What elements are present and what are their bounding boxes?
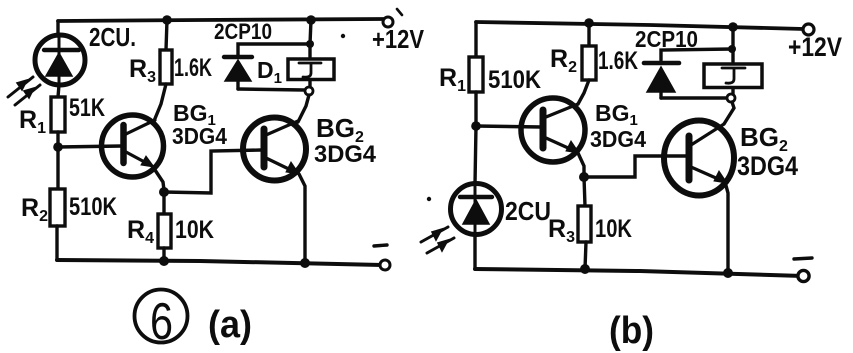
label BG2 (a) bbox=[316, 113, 364, 146]
node BG2 emitter bottom (b) bbox=[723, 268, 733, 278]
label R1 (b) bbox=[439, 64, 466, 95]
wire emitter node to BG2 base (a) bbox=[164, 150, 261, 193]
value 510K (a) bbox=[69, 193, 117, 221]
node relay top (b) bbox=[728, 45, 736, 53]
svg-text:3DG4: 3DG4 bbox=[737, 151, 798, 181]
svg-text:3DG4: 3DG4 bbox=[314, 141, 377, 168]
svg-text:3DG4: 3DG4 bbox=[172, 123, 227, 149]
relay J coil (b) bbox=[704, 49, 762, 94]
node relay top (a) bbox=[306, 40, 314, 48]
label J (b) bbox=[722, 68, 745, 83]
transistor BG1 (b) bbox=[521, 98, 585, 162]
label (a) bbox=[208, 304, 252, 346]
node R4 bottom (a) bbox=[159, 256, 169, 266]
svg-text:R1: R1 bbox=[439, 64, 466, 95]
svg-text:2CU: 2CU bbox=[505, 196, 551, 226]
svg-text:R1: R1 bbox=[19, 106, 46, 137]
label J (a) bbox=[299, 63, 321, 77]
label R3 (a) bbox=[129, 55, 156, 86]
stray dot near relay (a) bbox=[341, 34, 345, 38]
wire relay to BG2 collector (a) bbox=[298, 95, 309, 122]
label R2 (b) bbox=[550, 45, 577, 76]
diode D1 (a) bbox=[224, 57, 252, 89]
wire top rail (a) bbox=[58, 19, 383, 21]
label +12V (a) bbox=[372, 24, 425, 54]
wire R4 to bottom rail (a) bbox=[162, 248, 165, 261]
svg-text:R4: R4 bbox=[127, 216, 154, 247]
relay J coil (a) bbox=[288, 44, 334, 87]
resistor R1 (b) bbox=[469, 57, 483, 92]
wire relay to BG2 collector (b) bbox=[724, 102, 734, 124]
diode 2CP10 (b) bbox=[644, 63, 679, 98]
svg-text:3DG4: 3DG4 bbox=[590, 126, 646, 152]
svg-text:R3: R3 bbox=[548, 215, 575, 246]
resistor R2 (b) bbox=[582, 46, 596, 80]
label 2CU (b) bbox=[505, 196, 551, 226]
wire node to photodiode (b) bbox=[475, 126, 476, 184]
terminal +12V (a) bbox=[383, 17, 393, 27]
node BG2 emitter bottom (a) bbox=[300, 258, 310, 268]
label R3 (b) bbox=[548, 215, 575, 246]
photodiode 2CU (a) bbox=[35, 35, 85, 85]
wire BG1 emitter to node (b) bbox=[578, 153, 584, 176]
wire base BG1 (b) bbox=[476, 126, 541, 127]
node junction above relay (a) bbox=[306, 15, 316, 25]
label 3DG4 BG1 (b) bbox=[590, 126, 646, 152]
label 3DG4 BG1 (a) bbox=[172, 123, 227, 149]
svg-text:10K: 10K bbox=[595, 215, 632, 243]
svg-text:6: 6 bbox=[150, 293, 173, 351]
terminal +12V (b) bbox=[803, 24, 814, 35]
resistor R1 (a) bbox=[51, 97, 65, 132]
label +12V (b) bbox=[788, 32, 842, 62]
resistor R4 (a) bbox=[158, 214, 171, 248]
label R4 (a) bbox=[127, 216, 154, 247]
svg-text:R3: R3 bbox=[129, 55, 156, 86]
wire emitter node to BG2 base (b) bbox=[584, 156, 687, 177]
wire photodiode to R1 (a) bbox=[58, 85, 59, 97]
transistor BG2 (a) bbox=[243, 118, 306, 181]
wire main vertical to relay node (a) bbox=[310, 20, 311, 44]
label 2CP10 (a) bbox=[214, 19, 272, 44]
svg-text:510K: 510K bbox=[488, 66, 541, 94]
svg-text:BG1: BG1 bbox=[595, 100, 638, 129]
label R2 (a) bbox=[21, 194, 48, 225]
node base of BG1 (a) bbox=[53, 142, 63, 152]
label (b) bbox=[609, 310, 654, 352]
light arrows into photodiode (a) bbox=[8, 77, 40, 105]
wire bottom rail (b) bbox=[475, 269, 803, 276]
svg-text:+12V: +12V bbox=[788, 32, 842, 62]
label D1 (a) bbox=[257, 57, 282, 87]
svg-text:1.6K: 1.6K bbox=[598, 47, 638, 75]
value 51K (a) bbox=[69, 94, 105, 122]
value 1.6K (b) bbox=[598, 47, 638, 75]
wire relay node to D1 top (a) bbox=[238, 44, 310, 56]
resistor R2 (a) bbox=[50, 189, 65, 226]
label 3DG4 BG2 (a) bbox=[314, 141, 377, 168]
label figure 6 bbox=[135, 290, 188, 352]
svg-text:2CU.: 2CU. bbox=[89, 22, 136, 52]
label 2CP10 (b) bbox=[635, 26, 698, 52]
svg-text:10K: 10K bbox=[175, 216, 214, 244]
wire bottom rail (a) bbox=[57, 260, 384, 265]
wire R2 to bottom rail (a) bbox=[55, 226, 58, 260]
terminal minus (b) bbox=[794, 258, 812, 282]
svg-text:D1: D1 bbox=[257, 57, 282, 87]
svg-text:51K: 51K bbox=[69, 94, 105, 122]
label BG2 (b) bbox=[740, 122, 788, 155]
svg-text:1.6K: 1.6K bbox=[174, 54, 212, 82]
label 2CU. (a) bbox=[89, 22, 136, 52]
wire D1 bottom to relay bottom (a) bbox=[238, 89, 304, 90]
wire BG2 emitter to bottom rail (b) bbox=[725, 182, 728, 272]
node relay bottom open circle (a) bbox=[305, 87, 313, 95]
wire R1 to node (b) bbox=[474, 92, 477, 126]
stray dot left of photodiode (b) bbox=[427, 197, 431, 201]
node emitter BG1 (b) bbox=[579, 172, 589, 182]
terminal minus (a) bbox=[374, 245, 390, 270]
node junction above relay (b) bbox=[728, 22, 738, 32]
resistor R3 (b) bbox=[578, 206, 591, 242]
wire R1 to node (a) bbox=[56, 132, 59, 147]
node junction above R3 (a) bbox=[162, 15, 172, 25]
node R3 bottom (b) bbox=[580, 264, 590, 274]
wire base BG1 (a) bbox=[58, 146, 122, 147]
wire top rail (b) bbox=[476, 22, 804, 29]
value 10K (b) bbox=[595, 215, 632, 243]
wire R3 from top rail (a) bbox=[166, 20, 167, 50]
svg-text:R2: R2 bbox=[21, 194, 48, 225]
value 1.6K (a) bbox=[174, 54, 212, 82]
wire diode bottom to relay bottom (b) bbox=[661, 96, 727, 99]
photodiode 2CU (b) bbox=[451, 184, 502, 235]
label 3DG4 BG2 (b) bbox=[737, 151, 798, 181]
wire R2 from top rail (b) bbox=[587, 23, 590, 46]
transistor BG1 (a) bbox=[102, 115, 164, 177]
resistor R3 (a) bbox=[160, 50, 172, 84]
wire R3 to bottom rail (b) bbox=[585, 242, 586, 269]
stray tick above +12V (a) bbox=[397, 9, 402, 15]
node base BG1 (b) bbox=[471, 121, 481, 131]
wire top rail to R1 (b) bbox=[474, 22, 477, 57]
svg-text:(b): (b) bbox=[609, 310, 654, 352]
node emitter BG1 (a) bbox=[159, 187, 169, 197]
wire BG2 emitter to bottom rail (a) bbox=[299, 174, 305, 262]
node relay bottom open circle (b) bbox=[727, 94, 735, 102]
svg-text:+12V: +12V bbox=[372, 24, 425, 54]
wire photodiode to bottom rail (b) bbox=[473, 234, 476, 269]
wire R2 to BG1 collector (b) bbox=[578, 80, 589, 104]
wire emitter node to R4 (a) bbox=[162, 192, 165, 214]
node junction above R2 (b) bbox=[584, 18, 594, 28]
wire relay node to diode top (b) bbox=[661, 49, 732, 60]
wire R3 to BG1 collector (a) bbox=[154, 84, 166, 121]
svg-text:510K: 510K bbox=[69, 193, 117, 221]
value 10K (a) bbox=[175, 216, 214, 244]
label R1 (a) bbox=[19, 106, 46, 137]
wire BG1 emitter to node (a) bbox=[153, 167, 164, 190]
wire node to R2 (a) bbox=[56, 147, 59, 189]
transistor BG2 (b) bbox=[664, 121, 734, 196]
label BG1 (b) bbox=[595, 100, 638, 129]
svg-text:2CP10: 2CP10 bbox=[635, 26, 698, 52]
svg-text:R2: R2 bbox=[550, 45, 577, 76]
light arrows into photodiode (b) bbox=[421, 227, 454, 253]
svg-text:(a): (a) bbox=[208, 304, 252, 346]
wire top rail to photodiode (a) bbox=[56, 21, 59, 36]
wire emitter node to R3 (b) bbox=[584, 177, 585, 206]
wire main vertical to relay node (b) bbox=[731, 27, 734, 49]
label BG1 (a) bbox=[173, 100, 216, 129]
svg-text:2CP10: 2CP10 bbox=[214, 19, 272, 44]
value 510K (b) bbox=[488, 66, 541, 94]
